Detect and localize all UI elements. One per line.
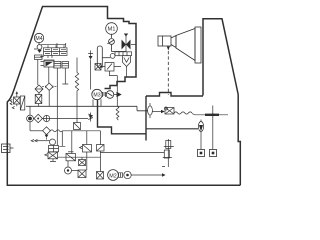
filter diamond D1 [35, 85, 43, 93]
pilot valve V7 with arrow [40, 55, 54, 68]
wavy hose right [174, 112, 195, 115]
second bus line y118.5 [50, 118, 88, 120]
valve N with X below [45, 152, 58, 162]
valve M circle+box [31, 139, 58, 152]
line y115 right [195, 114, 229, 116]
valve X2 [97, 145, 105, 152]
pump P4 under M4 [34, 43, 42, 53]
wire x62 vertical with tank tick [59, 131, 65, 147]
valve F top-left with X [10, 91, 20, 106]
squiggle under bus [116, 106, 119, 120]
wire [62, 68, 68, 84]
small box on x77 wire [74, 123, 81, 130]
column face plate [195, 27, 201, 63]
wire y157 [58, 156, 101, 158]
vertical x213 wire [212, 106, 214, 150]
valve V5 small box with X [95, 64, 101, 71]
valve bank stack [44, 45, 68, 58]
svg-text:M3: M3 [93, 93, 100, 99]
wire x100 vertical [100, 131, 102, 172]
wire H down [29, 122, 31, 131]
main bus line y108 [26, 106, 148, 111]
line y152 to cylinder [100, 151, 164, 153]
spring wavy line [75, 58, 78, 124]
machine outline: left body top and right stepped edge [42, 7, 136, 89]
svg-text:M4: M4 [35, 36, 42, 42]
wire y170.5 [72, 170, 79, 172]
relief valve V1 top right (bowtie) [122, 34, 136, 53]
motor M3 [92, 89, 102, 99]
accumulator cylinder [97, 46, 110, 68]
drill tip [167, 47, 170, 51]
K down arrow [45, 135, 49, 138]
throttle valve under M3 leg [88, 113, 93, 122]
valve R with X [97, 172, 104, 180]
line y128 from body to stop component [146, 128, 198, 130]
limit stop box 2 [210, 150, 217, 157]
pump P2 [124, 171, 131, 178]
striped box B [62, 62, 69, 69]
wire [48, 67, 50, 83]
svg-text:M2: M2 [109, 173, 117, 179]
svg-text:M1: M1 [107, 27, 115, 33]
pilot line above bank [41, 43, 67, 48]
arrowhead end of M2 line [162, 173, 166, 177]
arrowhead to valve cluster [161, 110, 165, 113]
inline check valve oval on bed [148, 103, 161, 118]
spindle head trapezoid [176, 29, 195, 61]
valve cluster mid bed [165, 107, 175, 114]
wire x72 vertical [71, 131, 73, 154]
small valve box above Q [79, 157, 86, 165]
wire check diamond down to bus [48, 90, 50, 106]
valve V4 left of accumulator [88, 51, 93, 90]
wire x201 down [200, 132, 202, 150]
wire [56, 68, 58, 146]
piston bar on line [205, 114, 219, 116]
machine outline: bed top edge with tab [146, 93, 203, 97]
line y131 left part [30, 130, 43, 132]
coupling M3 [102, 92, 105, 97]
machine outline: lower body right edge [145, 96, 147, 141]
wavy hose [50, 130, 100, 132]
wire from striped box down [37, 60, 39, 86]
vertical feed cylinder assembly [162, 139, 174, 167]
valve Q with X [78, 170, 86, 178]
wire W to pump P [67, 161, 69, 167]
spindle quill [158, 27, 201, 63]
pump G narrow rect [12, 96, 24, 110]
spindle taper neck [171, 36, 176, 48]
coupling M2 [119, 173, 123, 178]
machine outline: column [203, 19, 238, 96]
check diamond V9 with side arrows [42, 83, 56, 90]
limit stop box 1 [198, 150, 205, 157]
wire M2 pump to right [131, 174, 162, 176]
wire M3 legs down [93, 99, 101, 106]
small striped box left [35, 55, 43, 60]
machine outline: left slanted edge and left/bottom border [7, 7, 240, 186]
motor M4 [34, 33, 43, 42]
drill axis dashed line [167, 51, 169, 95]
check valve V3 [123, 56, 131, 77]
machine outline: right edge of bed with notch [238, 95, 240, 186]
motor M1 [106, 23, 118, 35]
pump P circle with dot [65, 167, 72, 174]
gear pump box with X [35, 93, 42, 106]
wire x87 vertical [86, 131, 88, 170]
oval component with up arrow [198, 120, 203, 132]
striped box A [54, 62, 61, 69]
machine outline: step under pump M3 [98, 100, 147, 134]
tank box on left edge [2, 144, 14, 153]
pump H dark circle [27, 106, 34, 122]
directional valve V2 under pump [110, 52, 131, 59]
valve X1 [80, 145, 92, 153]
valve W on y157 line [66, 152, 76, 161]
pump P3 [106, 91, 114, 99]
valve V6 with arrow [100, 63, 122, 107]
component J circle [42, 115, 49, 121]
pump P3 outlet arrow [114, 94, 117, 96]
wire M1 to pump [111, 34, 113, 38]
motor M2 [108, 170, 119, 181]
filter diamond I [33, 114, 42, 122]
pump P1 under M1 [107, 39, 126, 52]
filter diamond K [43, 127, 51, 135]
junction dot [211, 113, 214, 116]
